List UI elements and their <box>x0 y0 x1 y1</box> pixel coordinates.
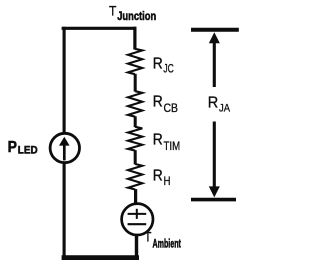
svg-text:R: R <box>153 94 163 111</box>
svg-text:T: T <box>109 2 117 18</box>
label R_JC <box>153 56 174 76</box>
wire bottom horizontal (ambient node) <box>62 255 139 260</box>
svg-text:T: T <box>145 229 152 245</box>
label R_JA <box>208 95 231 115</box>
svg-text:TIM: TIM <box>164 139 181 153</box>
wire lead between R_TIM and R_H <box>134 150 137 164</box>
svg-text:LED: LED <box>18 144 38 156</box>
dimension arrow down head <box>209 186 220 197</box>
wire lead between R_JC and R_CB <box>134 74 137 92</box>
resistor R_JC <box>128 49 142 74</box>
dimension arrow up head <box>209 32 220 43</box>
svg-text:R: R <box>208 95 219 112</box>
label R_TIM <box>153 132 180 153</box>
svg-text:Junction: Junction <box>117 9 156 23</box>
current source P_LED circle <box>50 133 79 162</box>
resistor R_TIM <box>128 127 142 151</box>
label R_CB <box>153 94 178 115</box>
wire left vertical upper <box>63 27 66 134</box>
label R_H <box>153 168 171 188</box>
svg-text:R: R <box>153 168 163 185</box>
dimension bar top (junction reference) <box>191 28 239 32</box>
label P_LED <box>8 139 38 156</box>
wire left vertical lower <box>63 163 66 260</box>
voltage source minus sign <box>128 223 147 225</box>
label T Junction <box>109 2 156 23</box>
current source arrow shaft <box>63 144 66 160</box>
voltage source plus sign horizontal <box>128 213 147 215</box>
voltage source V_Tambient circle <box>122 204 153 235</box>
svg-text:CB: CB <box>164 101 179 115</box>
svg-text:P: P <box>8 139 18 156</box>
dimension bar bottom (ambient reference) <box>191 198 236 202</box>
svg-text:JC: JC <box>163 61 174 75</box>
svg-text:Ambient: Ambient <box>153 237 181 251</box>
label T Ambient <box>145 229 181 251</box>
wire lead between R_H and temperature source <box>134 189 137 204</box>
svg-text:R: R <box>153 132 163 149</box>
dimension arrow down shaft <box>213 122 216 187</box>
current source arrowhead <box>59 137 70 146</box>
svg-text:H: H <box>164 174 171 188</box>
resistor R_CB <box>128 91 142 117</box>
svg-text:R: R <box>153 56 163 73</box>
resistor R_H <box>128 164 142 190</box>
wire top horizontal (junction node) <box>62 27 137 30</box>
wire voltage source bottom lead <box>135 234 138 258</box>
wire resistor chain top lead <box>133 27 136 50</box>
svg-text:JA: JA <box>219 102 231 114</box>
dimension arrow up shaft <box>213 41 216 87</box>
wire lead between R_CB and R_TIM <box>134 116 137 127</box>
voltage source plus sign vertical <box>136 209 138 219</box>
